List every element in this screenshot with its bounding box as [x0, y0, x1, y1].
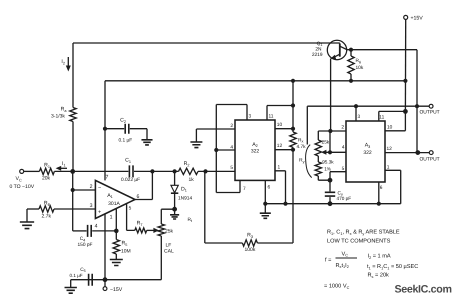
A2 pin 6 to ground rail: [264, 180, 266, 203]
svg-text:CAL: CAL: [164, 249, 174, 255]
svg-text:10: 10: [387, 124, 393, 130]
capacitor C2 0.1uF: [105, 128, 124, 130]
svg-text:I2​: I2​: [61, 59, 65, 65]
svg-text:4: 4: [230, 144, 233, 150]
svg-text:4: 4: [95, 224, 98, 230]
svg-text:10: 10: [277, 122, 283, 128]
ground (R5): [110, 260, 123, 266]
IC A3 322: [346, 121, 385, 182]
wire: C4 row: [73, 230, 87, 232]
svg-text:VC​: VC​: [16, 176, 22, 182]
svg-text:470 pF: 470 pF: [337, 196, 352, 201]
svg-text:I1​: I1​: [62, 161, 66, 167]
wire: +15V down: [404, 19, 406, 111]
wire: feedback line (summing node to output node): [73, 170, 129, 172]
svg-text:Ra​: Ra​: [61, 107, 68, 113]
op-amp A1 301A: [95, 180, 135, 218]
svg-text:0.1 µF: 0.1 µF: [70, 273, 83, 278]
svg-text:= 1000 VC​: = 1000 VC​: [324, 284, 350, 290]
transistor Q1 2N2219: [327, 40, 346, 59]
A2 pin 1 wire down to ground rail: [275, 171, 286, 204]
svg-text:2: 2: [90, 184, 93, 190]
resistor R3 100k: [242, 240, 257, 246]
svg-text:11: 11: [379, 114, 384, 120]
A2 pin 11 wire: [267, 106, 293, 121]
terminal +15V: [404, 15, 408, 19]
vertical R-x column: [292, 81, 294, 132]
A3 pin 5 wire: [330, 172, 346, 181]
svg-text:2.7k: 2.7k: [42, 213, 52, 219]
svg-text:R5​: R5​: [122, 241, 128, 247]
svg-text:Rs​ = 20k: Rs​ = 20k: [368, 272, 390, 279]
svg-text:2: 2: [341, 125, 344, 131]
current arrow I2: [67, 57, 69, 66]
svg-text:+15V: +15V: [411, 16, 424, 22]
A3 pin 6 lead: [378, 182, 380, 204]
current arrow I1: [61, 167, 68, 169]
node: op-amp output joins feedback: [150, 169, 154, 173]
wire: Rx column down to R3 row: [257, 147, 293, 243]
svg-text:−15V: −15V: [110, 287, 123, 293]
IC A2 322: [235, 120, 275, 180]
wire: top rail to Q1 base: [73, 42, 340, 44]
resistor R5 10M: [115, 231, 117, 240]
svg-text:1: 1: [387, 164, 390, 170]
svg-text:7: 7: [243, 186, 246, 192]
resistor R1 20k: [39, 168, 54, 174]
svg-text:R6​: R6​: [356, 58, 362, 64]
A3 pin 4 / wiper: [326, 151, 346, 153]
svg-text:0 TO −10V: 0 TO −10V: [10, 184, 35, 190]
svg-text:Rx​: Rx​: [298, 137, 303, 143]
terminal OUTPUT 1: [429, 104, 433, 108]
svg-text:12: 12: [277, 143, 283, 149]
svg-text:OUTPUT: OUTPUT: [420, 157, 440, 163]
wire: emitter down to A3 pin 2 node: [330, 59, 332, 131]
node: timing cap junction: [328, 178, 333, 183]
svg-text:5: 5: [129, 205, 132, 211]
ground (C5): [70, 280, 72, 287]
A3 pin 1 wire: [385, 170, 401, 203]
svg-text:D1​: D1​: [181, 186, 187, 192]
svg-text:A3​: A3​: [365, 143, 371, 149]
svg-text:A2​: A2​: [252, 142, 258, 148]
svg-text:2219: 2219: [312, 52, 323, 58]
svg-text:100k: 100k: [245, 247, 256, 253]
capacitor Cy 470pF: [329, 180, 331, 191]
A2 pin 7 wire: [216, 180, 240, 192]
svg-text:VC​: VC​: [342, 251, 349, 257]
svg-text:10M: 10M: [121, 248, 131, 254]
wire: summing node down: [72, 171, 74, 231]
potentiometer 25k LF CAL: [158, 224, 164, 236]
capacitor C4 150pF: [88, 225, 92, 237]
wire: to op-amp inverting input pin 2: [73, 189, 96, 191]
svg-text:20k: 20k: [42, 176, 51, 182]
wire: rail corner down to op-amp pin 7: [104, 81, 106, 181]
svg-text:3-1/3k: 3-1/3k: [51, 114, 65, 120]
svg-text:6: 6: [268, 185, 271, 191]
svg-text:6: 6: [380, 185, 383, 191]
A3 pin 11 wire: [379, 111, 406, 121]
node: C2 tap: [103, 127, 107, 131]
ground rail under ICs: [265, 203, 400, 205]
svg-text:Ry​: Ry​: [299, 158, 304, 164]
wire: R1 to summing node: [54, 170, 72, 172]
svg-text:25k: 25k: [322, 139, 330, 144]
node: summing junction: [70, 169, 75, 174]
svg-text:0.022 µF: 0.022 µF: [121, 177, 140, 183]
svg-text:f =: f =: [325, 257, 331, 264]
svg-text:LF: LF: [166, 242, 172, 248]
resistor Rx 4.7k: [290, 132, 296, 147]
svg-text:2: 2: [230, 123, 233, 129]
terminal OUTPUT 2: [429, 151, 433, 155]
op-amp pin 4 lead down to -15V rail: [104, 214, 106, 280]
resistor 95.3k 1%: [317, 156, 319, 162]
svg-text:C1​: C1​: [125, 158, 131, 164]
wire: input to R1: [24, 170, 40, 172]
svg-text:10k: 10k: [356, 65, 364, 71]
wire: OUTPUT 1 row: [307, 105, 429, 107]
svg-text:C4​: C4​: [80, 236, 86, 242]
wire: +15V inner rail: [105, 80, 405, 82]
svg-text:11: 11: [269, 114, 274, 120]
wire: A3 pin3 lead: [355, 106, 357, 121]
svg-text:+: +: [98, 209, 101, 215]
svg-text:2N: 2N: [315, 46, 322, 52]
svg-text:C2​: C2​: [120, 118, 126, 124]
diode D1 1N914: [174, 171, 176, 185]
node: below D1: [172, 207, 177, 212]
svg-text:1: 1: [278, 165, 281, 171]
op-amp pin 1 lead: [115, 209, 117, 231]
svg-text:R3​: R3​: [247, 233, 253, 239]
svg-text:Rx​t1​I2​: Rx​t1​I2​: [336, 263, 349, 269]
node: -15V tap: [103, 277, 108, 282]
resistor R6 10k: [350, 50, 352, 56]
svg-text:R1​: R1​: [44, 163, 50, 169]
node: collector/R6: [349, 48, 353, 52]
capacitor C5 0.1uF: [89, 274, 93, 286]
ground (RB): [20, 222, 34, 229]
A2 pin 12 wire: [275, 149, 293, 151]
svg-text:RB​: RB​: [44, 200, 51, 206]
svg-text:t1​ = R1​C1​ = 50 µSEC: t1​ = R1​C1​ = 50 µSEC: [367, 264, 418, 270]
A3 pin 10 wire: [385, 111, 405, 130]
A2 pin 4 wire: [216, 149, 235, 151]
node: C4/R5/pin1: [114, 229, 119, 234]
capacitor C1 0.022uF: [129, 165, 133, 177]
svg-text:25k: 25k: [165, 229, 174, 235]
svg-text:322: 322: [251, 149, 260, 155]
svg-text:OUTPUT: OUTPUT: [420, 110, 440, 116]
Q1 emitter with arrow: [332, 54, 340, 58]
svg-text:5: 5: [230, 165, 233, 171]
ground (D1/pot) with label Rt: [174, 209, 176, 214]
terminal -15V: [104, 280, 106, 287]
wire: feedback node to D1 node: [152, 170, 178, 172]
svg-text:R1​, C1​, Rx​ & Ry​ ARE STABLE: R1​, C1​, Rx​ & Ry​ ARE STABLE: [327, 230, 400, 236]
potentiometer 25k (Ry trim): [315, 140, 321, 156]
svg-text:95.3k: 95.3k: [322, 159, 334, 164]
Q1 collector to node: [340, 46, 351, 50]
svg-text:1: 1: [110, 214, 113, 220]
svg-text:LOW TC COMPONENTS: LOW TC COMPONENTS: [327, 239, 391, 245]
node: R3 tap: [203, 169, 207, 173]
wire: op-amp output pin 6: [135, 171, 152, 199]
svg-text:R7​: R7​: [137, 221, 143, 227]
resistor Ra 3-1/3k: [70, 108, 76, 122]
A2 pin 3 wire: [216, 105, 247, 193]
svg-text:7: 7: [106, 175, 109, 181]
svg-text:Q1​: Q1​: [317, 41, 323, 47]
brace for Ry: [306, 145, 312, 178]
wire: collector node to right column: [351, 50, 417, 153]
ground symbol (rail): [264, 204, 266, 213]
svg-text:A1​: A1​: [107, 193, 113, 199]
A3 pin 2 wire / pot top: [318, 131, 346, 140]
svg-text:1N914: 1N914: [178, 195, 192, 201]
svg-text:150 pF: 150 pF: [78, 242, 93, 248]
wire: down to Ry brace: [306, 106, 308, 144]
svg-text:1k: 1k: [189, 177, 195, 183]
svg-text:4: 4: [342, 145, 345, 151]
op-amp pin 5 lead to R7: [127, 204, 135, 230]
resistor R2 1k: [179, 168, 199, 174]
A2 pin 10 wire: [275, 128, 293, 130]
wire: D1 node to pot top: [161, 209, 174, 224]
resistor RB 2.7k: [27, 208, 39, 210]
input terminal Vc 0 TO -10V: [20, 169, 24, 173]
svg-text:SeekIC.com: SeekIC.com: [395, 283, 452, 295]
-15V rail: [71, 279, 162, 281]
svg-text:5: 5: [342, 166, 345, 172]
pot wiper from R7: [147, 229, 154, 231]
svg-text:301A: 301A: [108, 201, 120, 207]
A2 pin 2 wire + ground: [196, 129, 235, 142]
resistor R7: [135, 228, 147, 233]
svg-text:3: 3: [90, 203, 93, 209]
svg-text:12: 12: [387, 146, 393, 152]
svg-text:R2​: R2​: [184, 161, 190, 167]
svg-text:I2​ = 1 mA: I2​ = 1 mA: [368, 254, 391, 260]
svg-text:4.7k: 4.7k: [297, 144, 307, 150]
svg-text:322: 322: [363, 150, 372, 156]
svg-text:Rt​: Rt​: [188, 217, 193, 223]
node: op-amp pin 2 tap: [71, 188, 75, 192]
svg-text:−: −: [98, 185, 101, 191]
svg-text:3: 3: [249, 114, 252, 120]
svg-text:0.1 µF: 0.1 µF: [119, 138, 133, 144]
A3 pin 12 wire to OUTPUT 2: [385, 152, 429, 154]
svg-text:3: 3: [358, 114, 361, 120]
wire: Ra branch vertical top: [72, 43, 74, 108]
ground (C2): [141, 140, 152, 145]
svg-text:1%: 1%: [324, 166, 331, 171]
